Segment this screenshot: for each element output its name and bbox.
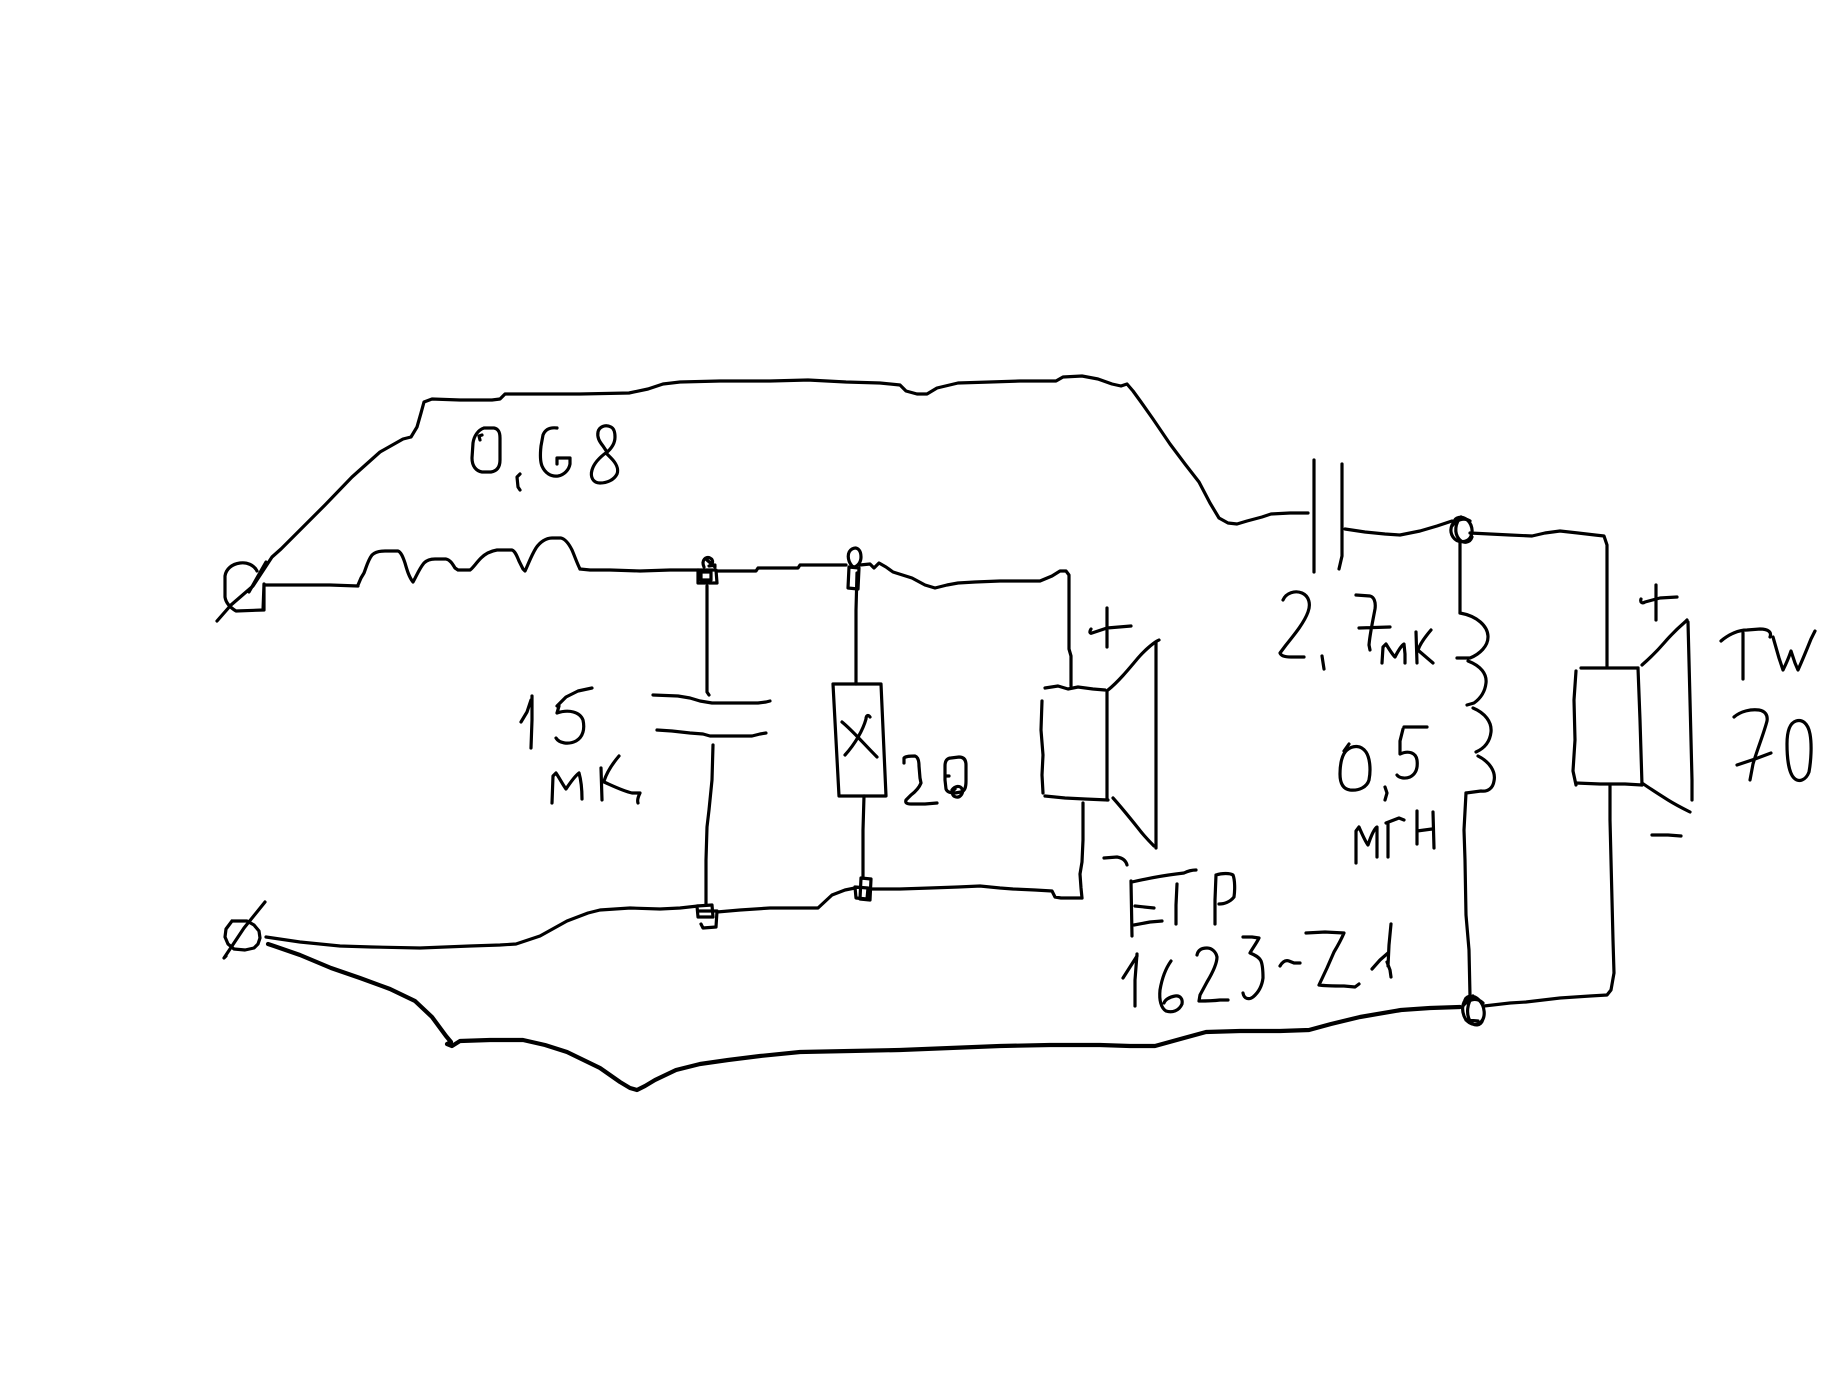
node: junction of C1 bottom lead with middle wire (697, 905, 713, 917)
node B (junction bottom right) (1463, 996, 1485, 1025)
resistor R1 (box with X) (856, 573, 857, 684)
label + (tweeter) (1641, 585, 1677, 620)
inductor L1 0,68 (series coil bumps on top wire) (358, 538, 580, 585)
node: junction of R1 bottom lead with middle wire (860, 878, 871, 900)
label 0,5 мГн (1340, 744, 1370, 790)
label 70 (1734, 710, 1771, 780)
label - (tweeter) (1652, 835, 1681, 836)
wire (716, 565, 846, 571)
wire: top wire to woofer + terminal (860, 563, 1071, 686)
label 0,68 (472, 428, 500, 472)
node: junction of R1 top lead with top wire (848, 567, 859, 589)
label 15 мк (521, 696, 532, 748)
label ETP (1131, 870, 1196, 936)
speaker ETP 1623-Z1 (woofer) (1045, 686, 1105, 690)
wire: node A to tweeter + (1470, 531, 1607, 666)
label 20 (904, 756, 937, 804)
wire: C2 right plate to node A (1345, 521, 1452, 535)
input terminal J1 (top left) (225, 563, 264, 611)
inductor L2 0,5 мГн (1458, 542, 1461, 613)
input terminal J2 (bottom left) (225, 921, 260, 950)
label - (woofer) (1104, 857, 1127, 865)
label TW (1721, 629, 1771, 679)
speaker TW 70 (tweeter) (1581, 666, 1638, 669)
label + (woofer) (1090, 608, 1131, 647)
capacitor C1 15мк (707, 586, 709, 695)
wire: bottom return from J2 to node B (268, 944, 1460, 1090)
wire: node B to tweeter - (1484, 785, 1614, 1006)
label 2,7 мк (1280, 592, 1309, 657)
capacitor C2 2,7мк (1312, 460, 1315, 572)
node A (junction top right) (1451, 517, 1472, 542)
label 1623-Z1 (1123, 954, 1137, 1006)
wire: top bypass loop from J1 over to capacitor C2 (217, 376, 1308, 621)
node: junction of C1 top lead with top wire (698, 570, 717, 583)
wire: lower input wire from J1 (264, 585, 358, 586)
wire: middle return from J2 to woofer - (266, 906, 698, 948)
